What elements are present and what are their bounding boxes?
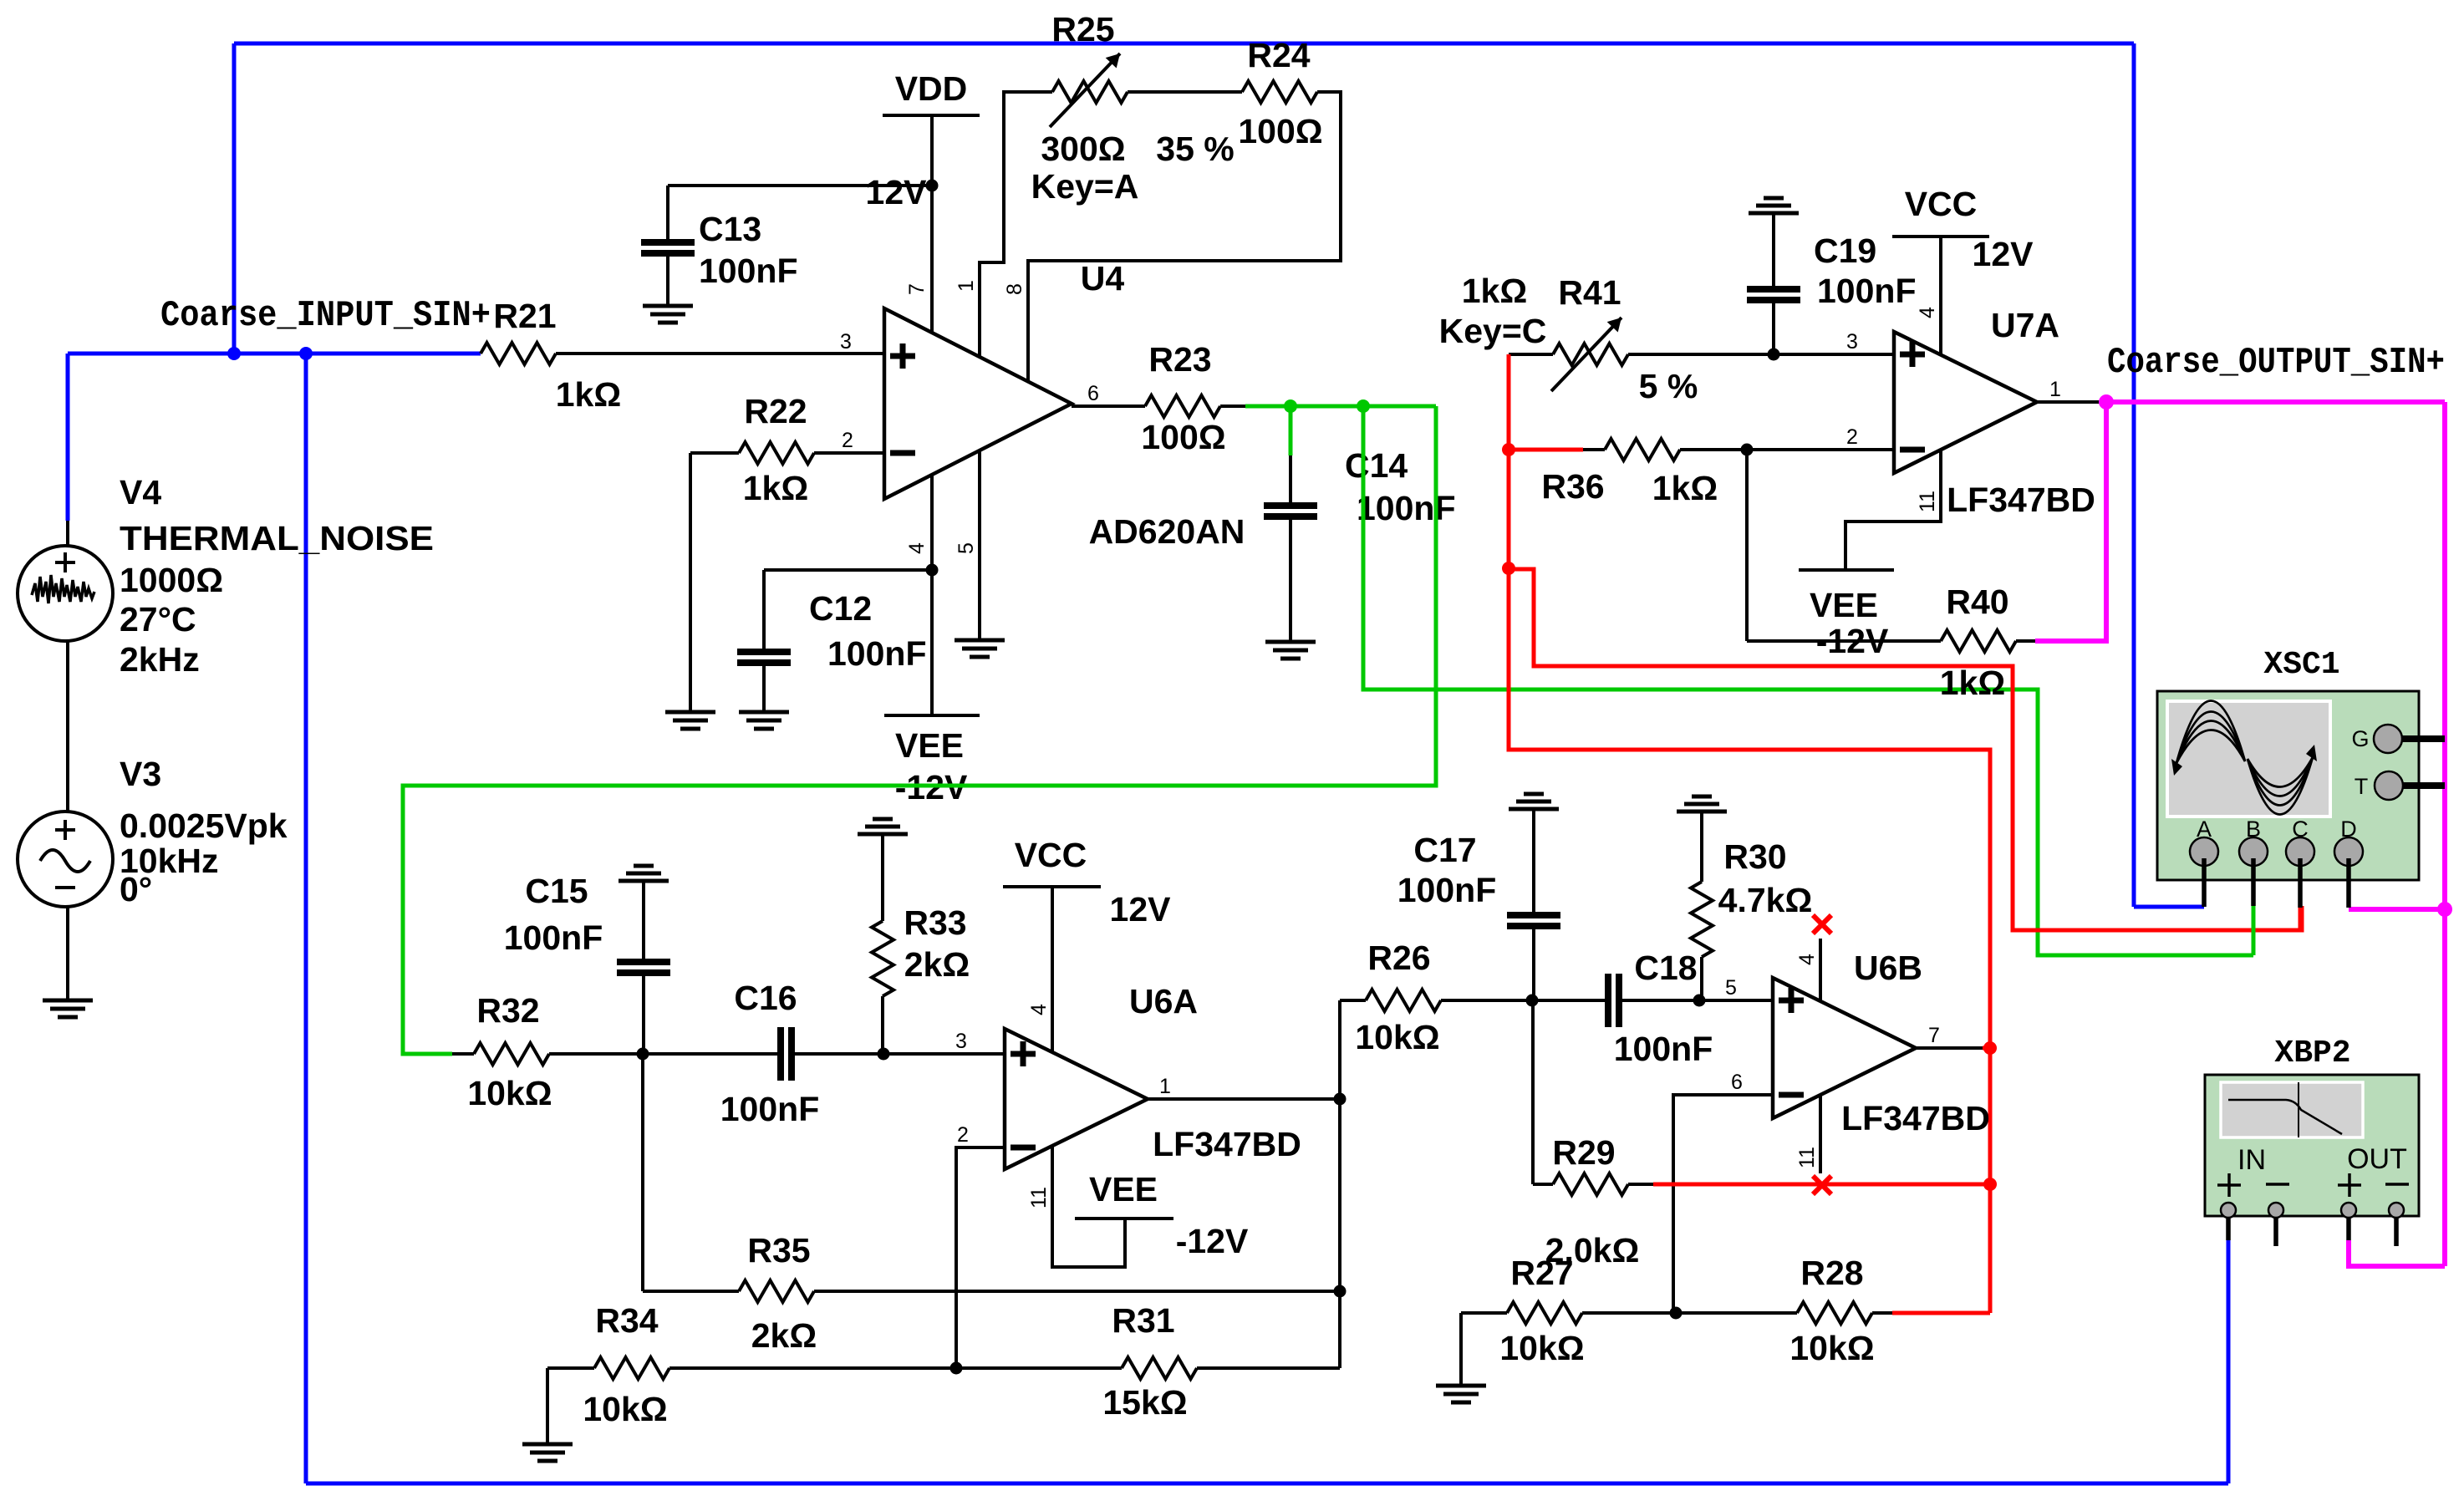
resistor R21 [481,343,556,364]
wire XBP2 IN- stub [2273,1218,2278,1246]
svg-text:2: 2 [1846,425,1858,449]
svg-text:15kΩ: 15kΩ [1102,1383,1187,1422]
resistor R23 [1072,405,1145,408]
svg-text:R41: R41 [1558,273,1621,312]
wire blue input row [68,352,481,356]
terminal OUT- [2385,1183,2409,1186]
capacitor C16 [777,1027,784,1081]
svg-text:100nF: 100nF [1817,272,1917,310]
capacitor C17 [1532,808,1535,912]
scope waveform [2176,700,2245,763]
wire C17 node down to R29 [1531,1000,1535,1184]
node green feedback [1357,399,1370,413]
resistor R30 [1700,811,1703,882]
wire blue down to V4 [66,354,70,521]
power VCC bar U7A [1892,235,1989,238]
svg-text:27°C: 27°C [120,600,196,639]
svg-text:VCC: VCC [1015,836,1087,874]
svg-text:100nF: 100nF [827,634,927,673]
svg-text:100nF: 100nF [1614,1030,1713,1068]
svg-text:LF347BD: LF347BD [1947,481,2095,519]
node red U6B output [1983,1041,1997,1055]
wire green to scope B [1363,406,2253,955]
wire green R23 output row [1245,405,1436,409]
svg-text:4: 4 [1916,307,1939,318]
svg-text:10kΩ: 10kΩ [467,1074,552,1112]
wire scope A stub [2202,858,2207,907]
wire U7A feedback down [1745,450,1749,641]
svg-text:C14: C14 [1345,446,1408,485]
source V3 sine [18,812,113,907]
wire red R41 column [1507,354,1511,568]
svg-text:R34: R34 [595,1301,658,1340]
wire C15 node down to R35 [641,1054,644,1291]
terminal G [2374,725,2402,753]
svg-text:LF347BD: LF347BD [1153,1125,1301,1163]
potentiometer R41 [1553,343,1628,365]
svg-text:10kΩ: 10kΩ [1355,1018,1439,1056]
power VEE bar U7A [1799,568,1894,572]
node red R36 [1502,443,1515,456]
svg-text:Coarse_INPUT_SIN+: Coarse_INPUT_SIN+ [160,295,491,337]
svg-text:C12: C12 [809,589,872,628]
wire red U6B output [1983,1046,1990,1051]
resistor R29 [1533,1183,1553,1186]
wire U4 pin4 to VEE [930,475,934,715]
svg-text:V4: V4 [120,473,161,511]
svg-text:U6A: U6A [1129,982,1198,1020]
node R30 junction [1693,995,1706,1007]
wire U7A pin4 VCC [1939,237,1942,354]
svg-text:T: T [2355,774,2369,799]
svg-text:R30: R30 [1723,837,1786,876]
svg-text:C18: C18 [1634,949,1697,987]
node Coarse_INPUT_SIN+ junction 1 [227,347,241,360]
svg-text:100nF: 100nF [699,252,798,290]
wire magenta to R40 [2035,402,2106,641]
ground C17 inverted [1524,792,1544,796]
wire V3 to ground [66,907,69,1000]
resistor R32 [452,1052,474,1056]
wire XBP2 OUT+ stub [2346,1218,2351,1240]
svg-text:6: 6 [1731,1071,1743,1094]
svg-text:11: 11 [1027,1187,1051,1208]
svg-text:1kΩ: 1kΩ [743,469,808,507]
node U6A output junction [1334,1093,1347,1106]
wire V4 to V3 [66,641,69,812]
wire R24 right leg to pin8 [1028,92,1341,382]
wire C12 row [764,568,932,572]
wire terminal T [2403,782,2445,789]
node R33 junction [878,1048,890,1061]
svg-text:IN: IN [2237,1144,2266,1176]
svg-text:1kΩ: 1kΩ [1940,664,2005,702]
svg-text:R29: R29 [1552,1133,1615,1172]
svg-text:5: 5 [1725,976,1737,1000]
wire XBP2 IN+ stub [2226,1218,2231,1240]
node C19 junction [1768,349,1780,361]
ground C13 [643,304,693,308]
svg-text:12V: 12V [866,173,928,211]
svg-text:1: 1 [955,280,978,292]
capacitor C15 [642,880,645,959]
terminal OUT+ [2338,1183,2361,1187]
power VEE bar U4 [884,714,980,717]
wire XBP2 OUT- stub [2394,1218,2399,1246]
svg-text:R35: R35 [747,1231,810,1269]
op-amp U6B LF347BD [1773,978,1916,1118]
node U7A feedback junction [1741,444,1754,456]
node R31/R34 junction [950,1362,963,1375]
node Coarse_INPUT_SIN+ junction 2 [299,347,313,360]
svg-text:-12V: -12V [1176,1222,1249,1260]
svg-text:12V: 12V [1110,890,1172,929]
node R27/R28 junction [1670,1307,1683,1320]
svg-text:OUT: OUT [2347,1143,2407,1175]
svg-text:1: 1 [1159,1075,1171,1098]
capacitor C18 [1605,974,1611,1027]
svg-text:35 %: 35 % [1156,130,1234,168]
wire U6A output [1148,1097,1340,1101]
resistor R24 [1242,81,1317,103]
svg-text:C13: C13 [699,210,761,248]
svg-text:10kΩ: 10kΩ [1789,1329,1874,1367]
svg-text:XSC1: XSC1 [2263,647,2339,683]
instrument XBP2 bode plotter [2205,1075,2419,1216]
svg-text:R31: R31 [1112,1301,1174,1340]
svg-text:1000Ω: 1000Ω [120,561,223,599]
svg-text:VDD: VDD [895,69,968,108]
svg-text:R36: R36 [1541,467,1604,506]
ground R34 [522,1442,573,1447]
svg-text:U6B: U6B [1854,949,1922,987]
svg-text:U7A: U7A [1991,306,2059,344]
wire magenta output rail [2103,399,2445,405]
svg-text:Key=A: Key=A [1031,167,1139,206]
wire R41 left corner [1509,353,1553,356]
svg-text:100nF: 100nF [720,1090,820,1128]
wire blue left riser to top rail [232,43,237,354]
wire red branch B to U6B output [1509,568,1990,1313]
wire U6A output column [1338,1000,1341,1368]
wire green down to C14 [1289,406,1293,455]
terminal IN- [2266,1183,2289,1186]
svg-text:R25: R25 [1051,10,1114,48]
svg-text:G: G [2351,726,2369,751]
svg-text:Key=C: Key=C [1439,312,1547,350]
wire magenta scope D horizontal [2349,907,2445,912]
wire red R29 to red column [1653,1183,1990,1187]
wire U7A output [2037,400,2103,404]
node C17 junction [1526,995,1539,1007]
ground U4 pin5 [955,639,1005,643]
svg-text:1kΩ: 1kΩ [1462,272,1527,310]
svg-text:2kΩ: 2kΩ [751,1316,817,1355]
resistor R27 [1461,1311,1507,1315]
svg-text:5: 5 [955,542,978,554]
svg-text:VEE: VEE [1089,1170,1158,1208]
capacitor C12 [762,570,766,649]
svg-text:100Ω: 100Ω [1238,112,1322,150]
svg-text:11: 11 [1795,1147,1819,1168]
ground C19 inverted [1764,196,1784,201]
wire blue riser to XBP2 IN+ [2227,1240,2231,1483]
svg-text:2: 2 [957,1123,969,1147]
op-amp U7A LF347BD [1894,332,2037,473]
power VEE bar U6A [1075,1217,1173,1220]
source V4 THERMAL_NOISE [66,521,69,546]
node red R29 junction [1983,1178,1997,1191]
node R35 junction [1334,1285,1347,1298]
wire U6A pin11 step [1052,1146,1125,1267]
svg-text:-12V: -12V [1816,622,1889,660]
svg-text:2kHz: 2kHz [120,640,200,679]
svg-text:0.0025Vpk: 0.0025Vpk [120,806,288,845]
svg-text:0°: 0° [120,870,152,908]
wire red R36 lead [1509,448,1583,452]
ground R22 [665,710,715,715]
svg-text:R24: R24 [1247,36,1310,74]
node magenta output [2099,394,2114,410]
resistor R26 [1340,999,1366,1002]
ground V3 [43,999,93,1003]
wire green scope B stub [2252,906,2256,955]
svg-text:2kΩ: 2kΩ [904,945,970,984]
op-amp U4 AD620AN [884,308,1072,499]
resistor R22 [739,442,814,464]
wire blue top rail Coarse_INPUT_SIN+ [234,42,2134,46]
ground R33 inverted [873,817,893,822]
node R32/C15 junction [637,1048,649,1061]
wire R25 to R24 [1128,90,1242,94]
svg-text:R27: R27 [1510,1254,1573,1292]
svg-text:U4: U4 [1081,259,1125,298]
wire terminal G [2402,735,2445,742]
node magenta scope D [2437,902,2452,917]
svg-text:R32: R32 [476,991,539,1030]
node red branch [1502,562,1515,575]
svg-text:5 %: 5 % [1639,367,1698,405]
wire blue right column to scope A [2132,43,2136,907]
node green C14 [1284,399,1297,413]
svg-text:100nF: 100nF [504,918,603,957]
wire U4 pin7 VDD [930,115,934,332]
svg-text:R23: R23 [1148,340,1211,379]
wire blue left column to bottom rail [304,354,308,1483]
svg-text:C17: C17 [1413,831,1476,869]
svg-text:XBP2: XBP2 [2274,1035,2350,1071]
wire red R28 to red column [1892,1311,1990,1315]
svg-text:100Ω: 100Ω [1141,418,1225,456]
svg-text:LF347BD: LF347BD [1841,1099,1990,1137]
wire U6B output [1916,1046,1983,1050]
svg-text:C15: C15 [525,872,588,910]
node C12 junction [926,564,939,577]
svg-text:4: 4 [905,542,929,554]
node VDD junction [926,180,939,192]
svg-text:AD620AN: AD620AN [1089,512,1245,551]
ground C12 [739,710,789,715]
instrument XSC1 oscilloscope [2157,691,2419,880]
svg-text:C19: C19 [1814,232,1876,270]
resistor R35 [643,1290,739,1293]
wire red branch A to scope C [1509,569,2302,930]
capacitor C14 [1289,455,1292,502]
wire scope C stub [2298,858,2303,908]
power VDD bar [883,114,980,117]
ground C14 [1265,640,1316,644]
svg-text:Coarse_OUTPUT_SIN+: Coarse_OUTPUT_SIN+ [2107,342,2445,384]
terminal T [2375,771,2403,800]
svg-text:7: 7 [905,283,929,295]
svg-text:12V: 12V [1973,235,2034,273]
ground C15 inverted [634,864,654,868]
bode plot curve [2298,1082,2299,1137]
svg-text:R40: R40 [1946,583,2008,621]
op-amp U6A LF347BD [1005,1029,1148,1169]
svg-text:VEE: VEE [1810,586,1878,624]
svg-text:VCC: VCC [1905,185,1978,223]
wire U7A pin11 step [1845,450,1941,570]
svg-text:11: 11 [1916,491,1939,512]
wire U6A pin2 [956,1147,1005,1368]
svg-text:4: 4 [1027,1004,1051,1015]
ground R27 [1436,1384,1486,1388]
wire magenta to XBP2 OUT+ [2349,1240,2445,1266]
svg-text:10kΩ: 10kΩ [1499,1329,1584,1367]
svg-text:1: 1 [2049,378,2061,401]
wire U4 pin5 to ground [978,450,981,640]
resistor R33 [881,833,884,921]
wire magenta right column [2442,402,2447,1266]
svg-text:100nF: 100nF [1357,489,1456,527]
svg-text:R33: R33 [904,903,966,942]
red X U6B pin4 [1819,939,1822,1001]
svg-text:R21: R21 [493,297,556,335]
wire U6B pin6 [1673,1095,1773,1313]
potentiometer R25 [1052,81,1128,103]
svg-text:3: 3 [1846,330,1858,354]
wire R25 left leg [980,92,1052,357]
wire scope B stub [2251,858,2256,906]
svg-text:3: 3 [840,330,852,354]
svg-text:4: 4 [1795,954,1819,965]
svg-text:1kΩ: 1kΩ [1652,469,1718,507]
capacitor C19 [1772,212,1775,286]
ground R30 inverted [1692,795,1712,799]
svg-text:8: 8 [1003,283,1026,295]
red X U6B pin11 [1819,1095,1822,1173]
resistor R28 [1797,1302,1872,1324]
svg-text:THERMAL_NOISE: THERMAL_NOISE [120,519,434,557]
resistor R40 [1941,630,2016,652]
svg-text:4.7kΩ: 4.7kΩ [1718,881,1813,919]
wire C13 to VDD rail [668,184,932,187]
svg-text:7: 7 [1928,1024,1940,1047]
terminal IN+ [2217,1183,2241,1187]
resistor R34 [669,1366,956,1370]
svg-text:10kΩ: 10kΩ [583,1390,667,1428]
svg-text:VEE: VEE [895,726,964,765]
resistor R36 [1583,448,1605,451]
svg-text:V3: V3 [120,755,161,793]
wire blue scope A horizontal [2134,905,2204,909]
svg-text:6: 6 [1087,382,1099,405]
wire U6A pin4 VCC [1051,887,1054,1052]
wire scope D stub [2346,858,2351,908]
svg-text:3: 3 [955,1030,967,1053]
wire red scope C stub [2299,908,2303,930]
svg-text:R22: R22 [744,392,807,430]
svg-text:100nF: 100nF [1397,871,1497,909]
wire blue bottom rail [306,1482,2228,1486]
svg-text:300Ω: 300Ω [1041,130,1125,168]
svg-text:1kΩ: 1kΩ [556,375,621,414]
resistor R31 [1197,1366,1340,1370]
svg-text:R28: R28 [1800,1254,1863,1292]
svg-text:2: 2 [842,429,853,452]
svg-text:R26: R26 [1367,939,1430,977]
capacitor C13 [641,239,695,246]
power VCC bar U6A [1003,885,1101,888]
svg-text:C16: C16 [734,979,797,1017]
wire green to R32 [403,406,1436,1054]
